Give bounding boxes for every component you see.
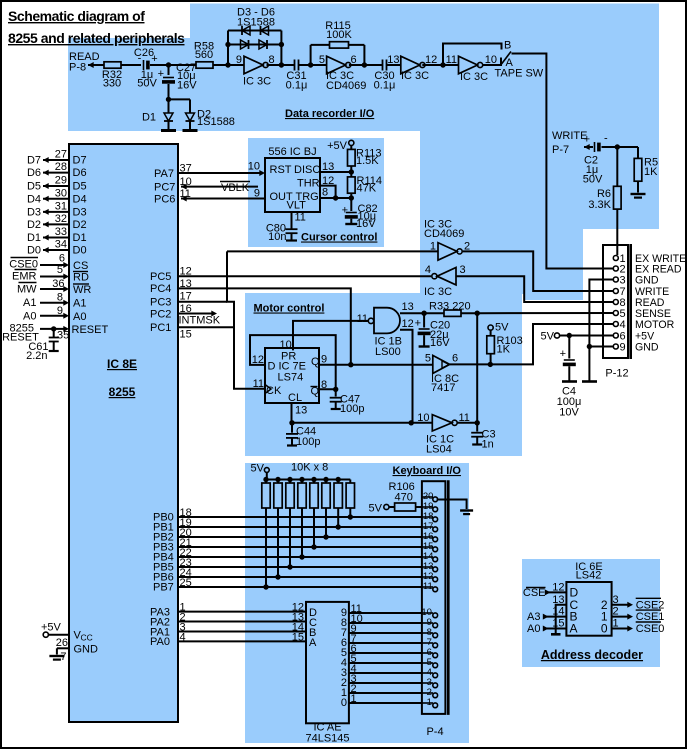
svg-text:CD4069: CD4069: [424, 228, 464, 240]
pin P-4 1: [422, 702, 433, 704]
svg-text:470: 470: [395, 492, 413, 504]
svg-text:RST: RST: [270, 164, 292, 176]
inverter IC 3C pins 13-12: [401, 56, 420, 74]
svg-text:1: 1: [430, 241, 436, 253]
node CL C44 junction: [289, 420, 294, 425]
svg-text:12: 12: [180, 266, 192, 278]
resistor R33: [424, 312, 444, 314]
flip-flop IC 7E LS74 body: [265, 348, 319, 403]
svg-text:1K: 1K: [644, 166, 658, 178]
svg-text:EMR: EMR: [12, 271, 37, 283]
pin PC3 wire: [178, 301, 227, 303]
svg-text:PB7: PB7: [153, 582, 174, 594]
svg-text:CSE: CSE: [523, 587, 546, 599]
svg-text:556 IC BJ: 556 IC BJ: [268, 146, 316, 158]
tape switch feedback wire to B: [443, 44, 502, 66]
svg-text:D7: D7: [27, 155, 41, 167]
pin 74LS145 output 8: [349, 622, 422, 624]
svg-text:D0: D0: [27, 245, 41, 257]
svg-text:26: 26: [56, 637, 68, 649]
node pin9 GND junction: [587, 344, 592, 349]
resistor R6: [616, 147, 618, 186]
wire C31 to inverter5: [299, 64, 327, 66]
svg-text:P-4: P-4: [426, 726, 443, 738]
pin nand 12 wire to LS04 input: [400, 330, 413, 423]
svg-text:WR: WR: [73, 284, 91, 296]
pin 74LS145 output 6: [349, 642, 422, 644]
svg-text:A0: A0: [23, 311, 36, 323]
pin VCC +5V: [43, 632, 48, 637]
capacitor C27: [168, 65, 170, 75]
node C2 R6 junction: [615, 144, 620, 149]
svg-text:PA0: PA0: [150, 636, 170, 648]
connector P-12 body: [603, 245, 628, 358]
svg-text:Q: Q: [311, 386, 320, 398]
svg-text:33: 33: [55, 226, 67, 238]
inverter IC 3C pins 11-10: [459, 56, 478, 74]
svg-text:16V: 16V: [430, 337, 450, 349]
pin PC6 from 556 OUT: [181, 198, 265, 200]
wire READ pin8 to inverter3 input: [456, 276, 613, 302]
svg-text:15: 15: [292, 631, 304, 643]
wire R32 to C26: [121, 64, 141, 66]
pin LS74 D-12 feedback from Qbar: [250, 335, 336, 389]
svg-text:VLT: VLT: [287, 200, 307, 212]
svg-text:1.5K: 1.5K: [356, 155, 379, 167]
svg-text:P-8: P-8: [69, 62, 86, 74]
pin P-4 8: [422, 632, 433, 634]
svg-text:-: -: [604, 133, 608, 145]
svg-text:CC: CC: [81, 633, 93, 643]
pin PA2 wire: [178, 621, 306, 623]
svg-text:INTMSK: INTMSK: [179, 315, 221, 327]
svg-text:1: 1: [351, 693, 357, 705]
svg-text:0.1μ: 0.1μ: [374, 80, 396, 92]
svg-text:6: 6: [59, 253, 65, 265]
svg-text:5V: 5V: [369, 503, 383, 515]
svg-text:LS74: LS74: [278, 372, 304, 384]
svg-text:D5: D5: [27, 181, 41, 193]
pin D7 data bus: [43, 159, 69, 161]
svg-text:TAPE SW: TAPE SW: [495, 68, 544, 80]
pin D6 data bus: [43, 172, 69, 174]
wire C30 to inverter13: [387, 64, 401, 66]
node LS04 input junction: [409, 420, 414, 425]
connector P-4 body: [422, 481, 446, 714]
wire CL row to LS04: [292, 422, 433, 424]
svg-text:11: 11: [423, 581, 433, 592]
buffer IC 8C 7417: [433, 355, 450, 373]
svg-text:D: D: [268, 361, 276, 373]
pin PC2 INTMSK: [178, 313, 212, 315]
svg-text:PC1: PC1: [150, 322, 171, 334]
svg-text:6: 6: [452, 353, 458, 365]
pin WR / MW: [40, 288, 66, 290]
node tape feedback junction: [440, 62, 445, 67]
svg-text:D2: D2: [27, 219, 41, 231]
svg-text:Q: Q: [311, 356, 320, 368]
pin P-4 13: [422, 566, 433, 568]
wire 5V to resistor bus: [266, 472, 268, 479]
pin RD / EMR: [40, 276, 66, 278]
pin P-4 4: [422, 672, 433, 674]
svg-text:PC5: PC5: [150, 271, 171, 283]
pin PC7 / VBLK: [181, 186, 258, 188]
pin P-4 20: [422, 496, 433, 498]
pin P-12 6 +5V: [613, 333, 618, 338]
tape switch contact: [500, 58, 502, 67]
pin 74LS145 output 0: [349, 702, 422, 704]
wire inverter6 to C30: [349, 64, 382, 66]
svg-text:13: 13: [402, 301, 414, 313]
svg-text:74LS145: 74LS145: [305, 733, 349, 745]
node R115 right junction: [362, 62, 367, 67]
svg-text:30: 30: [55, 187, 67, 199]
IC 8E 8255 body: [69, 144, 178, 722]
svg-text:5V: 5V: [541, 331, 555, 343]
pin PB3 wire: [178, 546, 422, 548]
svg-text:A0: A0: [527, 623, 540, 635]
ground at P-4 pin20: [460, 509, 473, 511]
pin PB4 wire: [178, 556, 422, 558]
svg-text:11: 11: [295, 212, 306, 224]
node C61 junction: [51, 326, 56, 331]
svg-text:D4: D4: [27, 193, 41, 205]
svg-text:LS00: LS00: [375, 346, 401, 358]
ground LS42 C: [551, 633, 561, 636]
pin P-4 5: [422, 662, 433, 664]
capacitor C61: [53, 329, 55, 337]
capacitor C3: [476, 423, 478, 432]
svg-text:Schematic diagram of: Schematic diagram of: [8, 8, 145, 24]
pin P-4 6: [422, 652, 433, 654]
svg-text:CSE0: CSE0: [9, 259, 38, 271]
svg-text:16V: 16V: [177, 80, 197, 92]
wire R33 junction to SENSE pin5: [477, 312, 613, 314]
node Qbar C47 junction: [333, 387, 338, 392]
inverter mid region (blue): [420, 131, 546, 294]
Address decoder region (blue): [522, 559, 660, 667]
svg-text:IC 3C: IC 3C: [424, 286, 452, 298]
svg-text:25: 25: [180, 577, 192, 589]
svg-text:7417: 7417: [431, 382, 455, 394]
svg-text:PC2: PC2: [150, 309, 171, 321]
resistor bus wire: [266, 479, 350, 481]
svg-text:+: +: [584, 134, 590, 146]
svg-text:GND: GND: [74, 644, 99, 656]
pin PB6 wire: [178, 576, 422, 578]
ground at 8255 GND pin: [49, 655, 64, 657]
resistor 10K #1: [263, 477, 268, 482]
pin P-4 9: [422, 622, 433, 624]
pin PA0 wire: [178, 640, 306, 642]
svg-text:29: 29: [55, 175, 67, 187]
node diode block left junction: [225, 62, 230, 67]
node 10K #8 junction: [348, 514, 353, 519]
svg-text:28: 28: [55, 161, 67, 173]
wire inverter8 to C31: [267, 64, 295, 66]
diode D2: [169, 98, 191, 100]
diode D4: [261, 26, 269, 35]
svg-text:32: 32: [55, 213, 67, 225]
svg-text:D3: D3: [27, 206, 41, 218]
svg-text:8255: 8255: [109, 385, 136, 399]
node R33 right junction: [475, 311, 480, 316]
svg-text:0: 0: [341, 697, 347, 709]
svg-text:PC4: PC4: [150, 283, 171, 295]
svg-text:16V: 16V: [356, 218, 376, 230]
svg-text:A: A: [309, 637, 317, 649]
svg-text:560: 560: [195, 49, 213, 61]
pin P-12 8 READ: [613, 300, 618, 305]
wire nand input 11 to PR: [293, 321, 368, 351]
pin 74LS145 output 7: [349, 632, 422, 634]
resistor 10K #7: [336, 477, 341, 482]
node C3 junction: [475, 420, 480, 425]
svg-text:1: 1: [427, 697, 432, 708]
node R103 junction: [488, 362, 493, 367]
capacitor C26: [143, 60, 145, 70]
svg-text:8: 8: [321, 379, 327, 391]
resistor 10K #5: [311, 477, 316, 482]
svg-text:PC6: PC6: [154, 194, 175, 206]
resistor R114: [348, 177, 356, 193]
decoder IC AE 74LS145 body: [306, 602, 349, 723]
wire R58 to diode block: [213, 64, 244, 66]
node 10K #5 junction: [311, 544, 316, 549]
node diode mid-branch junctions: [225, 42, 230, 47]
svg-text:LS42: LS42: [576, 570, 602, 582]
svg-text:A: A: [570, 622, 578, 636]
svg-text:3.3K: 3.3K: [588, 199, 611, 211]
svg-text:10V: 10V: [559, 407, 579, 419]
inverter IC 1C LS04: [432, 415, 452, 431]
svg-text:1K: 1K: [497, 344, 511, 356]
pin PB2 wire: [178, 536, 422, 538]
svg-text:3: 3: [460, 264, 466, 276]
pin 556 THR wire: [320, 186, 336, 198]
svg-text:GND: GND: [635, 342, 659, 354]
svg-text:10: 10: [180, 176, 192, 188]
capacitor C80: [286, 228, 298, 230]
svg-text:VBLK: VBLK: [221, 182, 250, 194]
pin LS74 Q wire to 7417: [319, 364, 433, 366]
svg-text:DISC: DISC: [294, 164, 320, 176]
svg-text:5V: 5V: [251, 463, 265, 475]
wire inverter10 to tape switch: [483, 64, 500, 66]
capacitor C47: [335, 389, 337, 396]
svg-text:15: 15: [180, 329, 192, 341]
svg-text:16: 16: [180, 303, 192, 315]
pin RESET / 8255 RESET: [40, 328, 66, 330]
capacitor C20: [421, 311, 426, 316]
inverter IC 3C pins 1-2 CD4069: [227, 250, 438, 252]
pin 74LS145 output 9: [349, 612, 422, 614]
pin P-12 5 SENSE: [613, 311, 618, 316]
ground for P-12 GND: [582, 380, 597, 383]
pin D1 data bus: [43, 237, 69, 239]
svg-text:5V: 5V: [495, 322, 509, 334]
svg-text:IC 8E: IC 8E: [107, 357, 137, 371]
Cursor control region (blue): [248, 138, 384, 247]
svg-text:MW: MW: [17, 284, 37, 296]
pin 74LS145 output 3: [349, 672, 422, 674]
svg-text:11: 11: [446, 54, 457, 66]
svg-text:GND: GND: [635, 275, 659, 287]
svg-text:31: 31: [55, 200, 67, 212]
svg-text:B: B: [504, 40, 511, 52]
diode D6: [259, 40, 267, 49]
svg-text:13: 13: [387, 54, 399, 66]
svg-text:CL: CL: [288, 392, 302, 404]
wire LS04 output to C3: [457, 422, 477, 424]
svg-text:9: 9: [57, 305, 63, 317]
node diode block right junction: [279, 62, 284, 67]
svg-text:D0: D0: [73, 245, 87, 257]
svg-text:Address decoder: Address decoder: [541, 648, 643, 662]
pin PB7 wire: [178, 586, 422, 588]
pin PB1 wire: [178, 526, 422, 528]
svg-text:+: +: [560, 348, 566, 360]
svg-text:P-7: P-7: [552, 144, 569, 156]
diode D1: [168, 99, 170, 113]
svg-text:+: +: [151, 53, 157, 65]
node 10K #6 junction: [323, 534, 328, 539]
node TRG R114 junction: [350, 193, 352, 198]
pin P-12 6 +5V wire: [560, 335, 614, 337]
wire READ to R32: [88, 64, 104, 66]
svg-text:8255 and related peripherals: 8255 and related peripherals: [8, 30, 185, 46]
svg-text:8: 8: [322, 187, 328, 199]
svg-text:IC 3C: IC 3C: [401, 70, 429, 82]
svg-text:9: 9: [254, 188, 260, 200]
pin PA1 wire: [178, 631, 306, 633]
svg-text:A0: A0: [73, 311, 86, 323]
capacitor C4: [568, 336, 570, 359]
pin PB0 wire: [178, 516, 422, 518]
svg-text:RESET: RESET: [72, 324, 109, 336]
svg-text:A1: A1: [23, 297, 36, 309]
ground below D2: [183, 129, 198, 132]
svg-text:9: 9: [236, 54, 242, 66]
pin A3 input: [545, 616, 566, 618]
pin PB5 wire: [178, 566, 422, 568]
wire LS04 output up to R33 junction: [476, 313, 478, 423]
node 10K #4 junction: [299, 554, 304, 559]
svg-text:LS04: LS04: [426, 444, 452, 456]
wire LS42 C input to ground: [556, 605, 567, 633]
resistor R103: [488, 325, 493, 330]
capacitor C82: [350, 198, 352, 211]
resistor 10K #4: [299, 477, 304, 482]
node +5V cursor: [349, 140, 354, 145]
svg-text:A3: A3: [527, 611, 540, 623]
svg-text:D3: D3: [73, 206, 87, 218]
pin P-4 14: [422, 556, 433, 558]
pin P-4 18: [422, 516, 433, 518]
Keyboard I/O region (blue): [245, 463, 469, 743]
svg-text:27: 27: [55, 149, 67, 161]
svg-text:13: 13: [295, 405, 307, 417]
svg-text:D1: D1: [73, 232, 87, 244]
svg-text:1S1588: 1S1588: [197, 116, 235, 128]
node C27 junction: [166, 62, 171, 67]
node C4 junction: [567, 333, 572, 338]
pin P-4 7: [422, 642, 433, 644]
pin 74LS145 output 2: [349, 682, 422, 684]
pin P-4 17: [422, 526, 433, 528]
pin 74LS145 output 4: [349, 662, 422, 664]
svg-text:100p: 100p: [296, 436, 320, 448]
resistor R5: [637, 147, 639, 158]
node 5V keyboard: [264, 468, 269, 473]
svg-text:10n: 10n: [268, 231, 286, 243]
svg-text:5: 5: [319, 54, 325, 66]
svg-text:10: 10: [248, 161, 260, 173]
node 10K #7 junction: [336, 524, 341, 529]
svg-text:IC 3C: IC 3C: [460, 71, 488, 83]
node 10K #1 junction: [263, 584, 268, 589]
svg-text:WRITE: WRITE: [552, 130, 587, 142]
node 10K #2 junction: [275, 574, 280, 579]
node THR-TRG junction: [333, 195, 338, 200]
svg-text:D1: D1: [27, 232, 41, 244]
pin 74LS145 output 1: [349, 692, 422, 694]
svg-text:5: 5: [57, 264, 63, 276]
svg-text:THR: THR: [297, 178, 320, 190]
svg-text:35: 35: [57, 330, 69, 342]
svg-text:37: 37: [180, 163, 192, 175]
svg-text:10K x 8: 10K x 8: [291, 462, 328, 474]
resistor R32: [104, 62, 121, 68]
pin PC4 wire: [178, 288, 351, 364]
svg-text:50V: 50V: [137, 78, 157, 90]
svg-text:D1: D1: [142, 112, 156, 124]
svg-text:12: 12: [402, 318, 414, 330]
pin P-4 16: [422, 536, 433, 538]
svg-text:12: 12: [322, 175, 334, 187]
wire P-12 pin3 GND down: [589, 280, 613, 347]
wire inverter2 output to WRITE pin7: [463, 251, 614, 291]
wire 7417 output to MOTOR pin4: [450, 324, 614, 364]
svg-text:47K: 47K: [357, 183, 377, 195]
svg-text:3: 3: [620, 275, 626, 287]
svg-text:2.2n: 2.2n: [26, 350, 47, 362]
resistor R113: [350, 146, 352, 150]
pin A1: [40, 302, 66, 304]
diode loop wires: [227, 31, 229, 66]
svg-text:+5V: +5V: [41, 622, 62, 634]
pin P-4 3: [422, 682, 433, 684]
pin D0 data bus: [43, 249, 69, 251]
svg-text:Cursor control: Cursor control: [301, 232, 377, 244]
svg-text:1n: 1n: [482, 439, 494, 451]
pin D5 data bus: [43, 185, 69, 187]
svg-text:17: 17: [180, 291, 192, 303]
svg-text:PC7: PC7: [154, 182, 175, 194]
pin LS74 CL wire: [291, 403, 293, 423]
pin D2 data bus: [43, 223, 69, 225]
svg-text:11: 11: [357, 313, 368, 325]
svg-text:D7: D7: [73, 155, 87, 167]
svg-text:10: 10: [417, 412, 429, 424]
svg-text:D4: D4: [73, 193, 87, 205]
pin P-12 2 EX READ: [613, 266, 618, 271]
svg-text:100K: 100K: [326, 29, 352, 41]
Motor control region (blue): [245, 293, 522, 456]
capacitor C2: [594, 142, 596, 152]
svg-text:4: 4: [180, 631, 186, 643]
